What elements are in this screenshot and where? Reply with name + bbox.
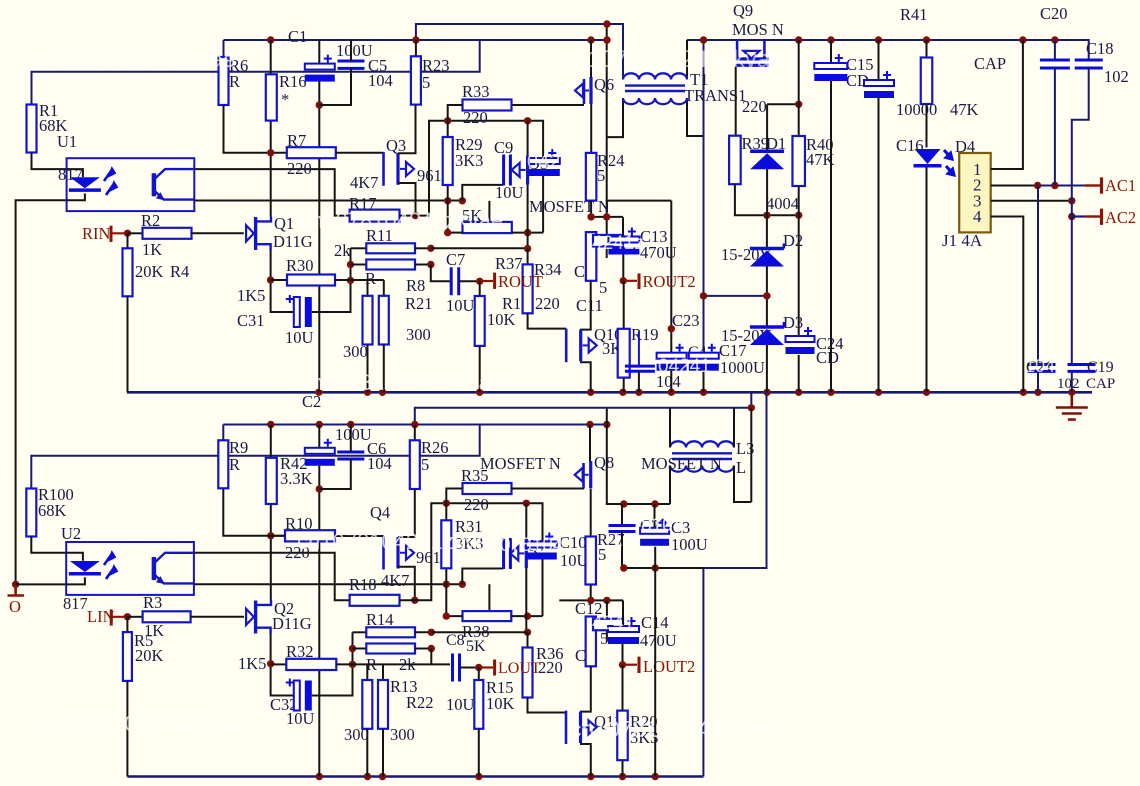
svg-text:MOSFET N: MOSFET N — [641, 454, 722, 473]
wire: R34 bottom to Q10 gate — [528, 313, 567, 328]
svg-text:10U: 10U — [495, 183, 524, 202]
mosfet Q3 9610 — [382, 152, 385, 186]
svg-text:C31: C31 — [237, 311, 265, 330]
wire: cap column down to R38 row — [542, 560, 544, 617]
resistor R42 3.3K — [266, 458, 277, 504]
svg-text:R22: R22 — [406, 693, 434, 712]
wire: L3 bottom-left to y504 row — [669, 466, 671, 505]
junction dot D2-D3 mid node — [763, 292, 770, 299]
wire: node link y295.9 to D2/D3 midpoint — [704, 295, 767, 297]
junction dot R10 input node — [267, 532, 274, 539]
wire: C4 column x671.3 — [670, 201, 672, 353]
svg-text:104: 104 — [367, 454, 392, 473]
resistor R31 3K3 — [441, 520, 451, 568]
svg-text:5: 5 — [421, 455, 429, 474]
svg-text:AC2: AC2 — [1105, 208, 1136, 227]
svg-text:L: L — [736, 458, 746, 477]
junction dots y504 row — [620, 500, 627, 507]
svg-text:10U: 10U — [560, 551, 589, 570]
capacitor C14 470U — [622, 600, 624, 626]
resistor R25 — [593, 235, 623, 247]
wire: R9 junction down through R42 to Q2 collector — [270, 425, 272, 601]
svg-text:cn1078104241zkvae: cn1078104241zkvae — [297, 529, 500, 554]
svg-text:220: 220 — [742, 97, 767, 116]
wire: y664.4 long run to C8 — [353, 663, 451, 665]
wire: R17 right riser to y120.8 run — [400, 121, 544, 216]
resistor R10 220 — [285, 530, 335, 541]
wire: riser into 5K resistor — [488, 201, 490, 228]
capacitor C3 100U — [654, 504, 656, 528]
wire: Q2 emitter down to C32 node — [271, 634, 294, 696]
wire: R6 junction down through R16 to Q1 collector — [270, 40, 272, 217]
svg-text:R2: R2 — [141, 211, 160, 230]
wire: y566.8 row — [622, 567, 703, 569]
svg-text:220: 220 — [464, 495, 489, 514]
junction dot RIN node — [124, 230, 131, 237]
capacitor C9 electrolytic body — [529, 158, 560, 164]
svg-text:R18: R18 — [349, 575, 377, 594]
svg-text:R32: R32 — [286, 642, 314, 661]
wire: O node to U2 cathode — [16, 583, 67, 585]
wire: Q4 source down to R18 output node — [398, 567, 415, 601]
svg-text:300: 300 — [406, 325, 431, 344]
svg-text:O: O — [9, 597, 21, 616]
net label ROUT2 with port stub — [623, 280, 637, 282]
resistor R24 5 — [586, 153, 597, 201]
junction dot R34 top — [524, 245, 531, 252]
svg-text:1K: 1K — [142, 240, 162, 259]
svg-text:104: 104 — [368, 71, 393, 90]
svg-text:Q3: Q3 — [386, 136, 406, 155]
svg-text:LOUT: LOUT — [498, 660, 541, 677]
capacitor C6 104 — [337, 452, 364, 459]
wire: riser into R38 — [488, 584, 490, 611]
svg-text:5: 5 — [598, 545, 606, 564]
svg-text:4241: 4241 — [592, 613, 634, 634]
svg-text:Q4: Q4 — [370, 503, 390, 522]
resistor R30 — [271, 279, 287, 281]
wire: R7 right to Q3 gate — [336, 152, 384, 154]
junction dots on y503.3 run — [443, 500, 450, 507]
mosfet Q6 — [589, 77, 592, 104]
resistor R39 — [729, 136, 741, 185]
svg-text:CD: CD — [816, 348, 839, 367]
svg-text:R8: R8 — [406, 276, 425, 295]
svg-text:220: 220 — [287, 159, 312, 178]
wire: x751.3 from rail down to L3 — [750, 408, 752, 502]
resistor R26 5 — [414, 425, 416, 441]
wire: right descent from ground bus to bottom bus — [703, 392, 766, 776]
resistor 300 A — [363, 296, 373, 345]
capacitor C13 470U — [622, 217, 624, 237]
resistor R9 — [222, 425, 224, 441]
wire: R4 bottom to ground bus corner — [127, 296, 129, 392]
svg-text:04241: 04241 — [658, 356, 711, 377]
resistor R7 220 — [287, 147, 336, 158]
junction dot R7 input node — [267, 149, 274, 156]
wire: C16 bottom to ground bus — [926, 168, 928, 393]
capacitor 104 at C23 node — [638, 332, 640, 366]
svg-text:MOSFET N: MOSFET N — [480, 454, 561, 473]
wire: R10 right to Q4 gate (dashed by watermark) — [335, 535, 384, 537]
svg-text:100U: 100U — [671, 535, 708, 554]
junction dot LOUT2 node — [619, 661, 626, 668]
resistor R16 — [266, 74, 277, 120]
wire: R27 bottom to y600.4 row — [590, 585, 592, 601]
wire: R24 bottom to node row y216.9 — [591, 201, 623, 217]
wire: 5K row — [448, 232, 463, 234]
capacitor C31 10U — [294, 297, 300, 327]
svg-text:*: * — [281, 90, 289, 109]
svg-text:078104: 078104 — [500, 535, 564, 556]
wire: R30 right to dot — [335, 279, 351, 281]
wire: lower R14 row riser to y664 run — [430, 649, 432, 665]
wire: C7 right to ROUT node — [459, 280, 480, 282]
junction dot under C1 — [316, 101, 323, 108]
svg-text:U1: U1 — [57, 132, 77, 151]
svg-text:cn1078104241zkvae: cn1078104241zkvae — [32, 47, 235, 72]
wire: L3 top-right to rail — [733, 408, 735, 448]
wire: J1 pin1 to top bus — [991, 40, 1023, 169]
svg-text:RIN: RIN — [82, 224, 111, 243]
svg-text:R41: R41 — [900, 5, 928, 24]
junction dot LIN node — [124, 613, 131, 620]
wire: Q10 source to ground bus — [580, 362, 591, 392]
svg-text:5K: 5K — [466, 638, 486, 655]
svg-text:8104: 8104 — [641, 515, 684, 536]
capacitor C22 — [621, 504, 623, 526]
wire: D2 to D3 — [766, 267, 768, 327]
net label AC1 with port stub — [1085, 184, 1100, 186]
resistor R1 — [27, 105, 37, 153]
svg-text:MOS N: MOS N — [732, 20, 784, 39]
wire: C6 bottom to node — [319, 459, 351, 489]
wire: main top bus y40 left span — [224, 39, 607, 41]
svg-text:ROUT: ROUT — [498, 272, 543, 291]
wire: Q11 source to bottom bus — [580, 744, 591, 777]
wire: C1 bottom junction down through R7 and R30 to ground bus — [318, 81, 320, 392]
svg-text:5: 5 — [597, 166, 605, 185]
svg-text:10U: 10U — [446, 695, 475, 714]
wire: R39 bottom to join row y215.3 — [735, 184, 799, 215]
ground symbol — [1056, 392, 1088, 419]
junction dots R11 column — [347, 261, 354, 268]
mosfet Q4 9610 — [382, 536, 385, 570]
wire: C13 bottom to ROUT2 node — [622, 255, 624, 281]
wire: vertical x607 feed — [606, 24, 608, 258]
junction dots R38 row — [443, 612, 450, 619]
net label LOUT port stub — [479, 666, 493, 668]
junction dots R14 column — [349, 645, 356, 652]
svg-text:4K7: 4K7 — [350, 173, 378, 192]
wire: Q6 source to R24 — [590, 104, 592, 153]
wire: U1 emitter run y200.5 long horizontal — [194, 200, 462, 202]
optocoupler U2 box — [66, 542, 194, 595]
svg-text:300: 300 — [344, 725, 369, 744]
wire: x606.8 feed down to y504 row — [607, 408, 670, 504]
resistor R23 — [415, 40, 417, 56]
wire: L3 top-left to rail — [669, 408, 671, 448]
svg-text:102: 102 — [1104, 67, 1129, 86]
wire: C22 bottom to y566.5 row — [621, 532, 623, 569]
svg-text:C11: C11 — [576, 296, 603, 315]
junction dots on y120.8 run — [444, 117, 451, 124]
svg-text:220: 220 — [535, 294, 560, 313]
net label AC2 with port stub — [1068, 213, 1075, 220]
wire: C3 bottom down to bottom bus — [654, 547, 656, 777]
port O ground stub — [8, 584, 25, 595]
junction dot ROUT node — [476, 278, 483, 285]
capacitor C19 — [1068, 365, 1096, 372]
wire: R33 right to Q6 gate — [512, 104, 584, 106]
led C16 arrows — [944, 150, 954, 175]
junction dot LOUT node — [475, 664, 482, 671]
junction dots bottom bus — [267, 421, 274, 428]
wire: C14 bottom to LOUT2 node — [622, 644, 624, 665]
wire: Q3 drain up to R23 — [398, 105, 416, 154]
svg-text:300: 300 — [390, 725, 415, 744]
junction dot node O — [12, 581, 19, 588]
svg-text:4241z: 4241z — [592, 233, 644, 254]
junction dot R17 output — [412, 212, 419, 219]
svg-text:0424: 0424 — [527, 151, 572, 173]
svg-text:C20: C20 — [1040, 4, 1068, 23]
svg-text:C9: C9 — [494, 138, 513, 157]
svg-text:C: C — [574, 262, 585, 281]
svg-text:C18: C18 — [1086, 39, 1114, 58]
junction dots on emitter run — [444, 197, 451, 204]
svg-text:C19: C19 — [1087, 359, 1114, 376]
wire: Q6 drain to bus — [590, 40, 592, 77]
wire: C-res bottom to Q11 drain — [580, 666, 591, 711]
svg-text:300: 300 — [343, 342, 368, 361]
wire: long rail y72 from R1 to step at x479.7 — [32, 40, 480, 105]
resistor C 5 (R below R24) — [586, 232, 597, 281]
svg-text:CAP: CAP — [974, 54, 1006, 73]
wire: R2 to Q1 gate — [191, 232, 244, 234]
svg-text:Q8: Q8 — [594, 453, 614, 472]
svg-text:R14: R14 — [366, 610, 394, 629]
svg-text:R37: R37 — [495, 254, 523, 273]
wire: riser to Q5 gate — [462, 185, 503, 201]
junction dots top rails — [603, 20, 610, 27]
svg-text:4004: 4004 — [766, 194, 799, 213]
U1 internal LED — [67, 169, 83, 177]
wire: lower R row to C7 — [431, 265, 451, 282]
junction dots 5K row — [444, 229, 451, 236]
resistor 300 D — [378, 680, 388, 729]
wire: U1 cathode pin to far-left rail down to node O — [16, 200, 67, 584]
wire: R12 bottom to ground bus — [479, 346, 481, 392]
wire: R15 bottom to bottom bus — [478, 729, 480, 777]
wire: R32 right to dot — [336, 663, 352, 665]
junction dots y566.8 row — [620, 564, 627, 571]
U1 LED emission arrows — [104, 169, 117, 195]
junction dot R36 top — [524, 629, 531, 636]
capacitor C32 10U — [294, 681, 300, 711]
wire: bottom bus y776.5 — [127, 775, 703, 778]
svg-text:cn1078104241zkvae: cn1078104241zkvae — [562, 46, 784, 73]
wire: C5 bottom to C1 node — [319, 68, 351, 105]
capacitor C17 1000U — [689, 353, 719, 359]
junction dot x751 rail — [748, 404, 755, 411]
mosfet Q5 body — [526, 155, 529, 184]
svg-text:C23: C23 — [672, 311, 700, 330]
wire: Q3 source down to R17 output node — [398, 183, 416, 216]
svg-text:C1: C1 — [288, 27, 307, 46]
svg-text:cn1078104241zkvae: cn1078104241zkvae — [40, 711, 243, 736]
resistor R29 3K3 — [443, 137, 453, 185]
svg-text:U2: U2 — [61, 524, 81, 543]
wire: R11 left column — [350, 248, 352, 312]
svg-text:470U: 470U — [640, 631, 677, 650]
svg-text:D3: D3 — [783, 313, 803, 332]
svg-text:LOUT2: LOUT2 — [643, 657, 695, 676]
svg-text:3.3K: 3.3K — [280, 469, 313, 488]
svg-text:10000: 10000 — [896, 100, 937, 119]
junction dot R40 top — [795, 101, 802, 108]
wire: riser to Q7 gate — [462, 569, 503, 585]
svg-text:J1 4A: J1 4A — [942, 231, 983, 250]
wire: stub x606.9 down beside C14 — [606, 600, 608, 641]
svg-text:5: 5 — [422, 73, 430, 92]
svg-text:4K7: 4K7 — [381, 571, 409, 590]
resistor R32 — [271, 663, 287, 665]
svg-text:C8: C8 — [446, 632, 465, 649]
wire: top rail y24 from node A to transformer T1 — [416, 24, 623, 80]
wire: T1 bottom-left link — [607, 98, 623, 137]
resistor R28 — [593, 619, 623, 631]
resistor R100 68K — [26, 489, 36, 537]
junction dots y215.3 — [763, 212, 770, 219]
wire: R33 left column x447.7 — [448, 105, 463, 233]
wire: R9 bottom to R10 row — [223, 489, 285, 536]
wire: 300 resistor tops bottom channel — [367, 664, 383, 680]
wire: bottom rail y407.8 — [415, 392, 752, 424]
wire: C31 right plate riser — [312, 292, 351, 312]
wire: 300 resistor tops — [351, 280, 384, 296]
svg-text:R30: R30 — [286, 256, 314, 275]
wire: 300 resistors to bottom bus — [366, 729, 368, 777]
svg-text:Q1: Q1 — [274, 214, 294, 233]
junction dot C23 node — [668, 325, 675, 332]
wire: y632.3 run to R36 — [431, 631, 527, 633]
svg-text:CAP: CAP — [1086, 376, 1115, 392]
resistor R2 — [128, 232, 143, 234]
U2 LED emission arrows — [104, 553, 117, 579]
wire: Q8 drain to bottom bus — [589, 425, 591, 462]
U2 internal phototransistor — [152, 557, 157, 580]
net label LOUT2 with port stub — [623, 664, 638, 666]
svg-text:D11G: D11G — [273, 232, 313, 251]
svg-text:1000U: 1000U — [720, 358, 765, 377]
junction dot Q2 emitter node — [267, 660, 274, 667]
svg-text:47K: 47K — [950, 100, 979, 119]
wire: R6 bottom to R7 row — [224, 105, 287, 153]
wire: R19 bottom to ground bus — [623, 378, 625, 393]
capacitor CD second — [878, 40, 880, 80]
resistor R15 10K — [478, 668, 480, 681]
svg-text:5: 5 — [599, 278, 607, 297]
U1 internal phototransistor — [152, 173, 157, 196]
wire: R14 left column — [352, 632, 354, 695]
resistor R lower bottom — [353, 648, 367, 650]
svg-text:2k: 2k — [334, 241, 351, 260]
optocoupler U1 box — [67, 158, 195, 211]
resistor R20 3K3 — [622, 665, 624, 711]
wire: D1 top to R40 column — [767, 103, 799, 105]
resistor R33 220 — [463, 100, 512, 111]
wire: C8 right to LOUT node — [460, 667, 479, 669]
wire: T1 bottom-right link — [687, 98, 704, 136]
junction dot under bottom electrolytic — [316, 485, 323, 492]
wire: R38 row — [446, 615, 462, 617]
resistor R12 10K — [479, 281, 481, 296]
svg-text:20K: 20K — [135, 262, 164, 281]
wire: 300 resistors to ground bus — [367, 345, 369, 393]
svg-text:10U: 10U — [285, 328, 314, 347]
svg-text:R19: R19 — [631, 325, 659, 344]
svg-text:MOSFET N: MOSFET N — [529, 197, 610, 216]
wire: J1 pin2 AC1 line — [991, 185, 1038, 187]
svg-text:cn1078104241zkvae: cn1078104241zkvae — [300, 370, 503, 395]
wire: L3 bottom-right link — [734, 466, 751, 503]
svg-text:R21: R21 — [405, 294, 433, 313]
wire: C32 right plate riser — [312, 676, 353, 696]
junction dots on emitter run bottom — [443, 581, 450, 588]
resistor R lower — [351, 264, 367, 266]
transistor Q2 D11G — [246, 609, 254, 625]
svg-text:817: 817 — [63, 594, 88, 613]
svg-text:1K5: 1K5 — [237, 286, 265, 305]
svg-text:1042: 1042 — [1025, 356, 1065, 376]
svg-text:220: 220 — [538, 658, 563, 677]
svg-text:20K: 20K — [135, 646, 164, 665]
mosfet Q8 — [589, 461, 592, 489]
resistor 300 C — [362, 680, 372, 729]
svg-text:102: 102 — [1057, 376, 1080, 392]
wire: Q1 emitter down to 1K5 node and C31 — [271, 251, 294, 313]
junction dots bottom bus rail — [316, 773, 323, 780]
wire: R1 bottom to U1 anode pin — [32, 153, 67, 170]
wire: R36 bottom to Q11 gate — [528, 698, 567, 713]
wire: U1 collector run y169 to R17 riser — [194, 169, 349, 216]
svg-text:R3: R3 — [143, 593, 162, 612]
wire: ground bus y392.3 full width — [127, 391, 1092, 394]
mosfet Q11 — [565, 711, 568, 744]
wire: main top bus y40 right span to C18 — [687, 40, 1089, 60]
wire: C-res bottom to Q10 drain — [580, 281, 591, 330]
resistor R40 47K — [798, 40, 800, 136]
U2 internal LED — [66, 553, 83, 561]
junction dots on ground bus — [315, 389, 322, 396]
resistor R3 1K — [127, 616, 142, 618]
junction dots y600.4 row — [587, 597, 594, 604]
svg-text:10K: 10K — [487, 310, 516, 329]
resistor R4 20K — [127, 233, 129, 248]
wire: R18 right riser to y503.3 run — [400, 503, 543, 600]
wire: riser x479.7 to y455.8 rail — [31, 425, 479, 489]
svg-text:cn1078104241zkvae: cn1078104241zkvae — [570, 716, 782, 742]
capacitor C5 104 — [338, 61, 365, 68]
mosfet Q7 body — [525, 539, 528, 568]
wire: branch y200.6 to C4 column — [607, 200, 672, 202]
wire: R35 right to Q8 gate — [511, 488, 584, 490]
wire: R14 rows right to dots — [415, 631, 431, 633]
svg-text:D2: D2 — [783, 231, 803, 250]
capacitor C21 102 — [1037, 186, 1039, 365]
resistor R27 5 — [585, 537, 596, 585]
